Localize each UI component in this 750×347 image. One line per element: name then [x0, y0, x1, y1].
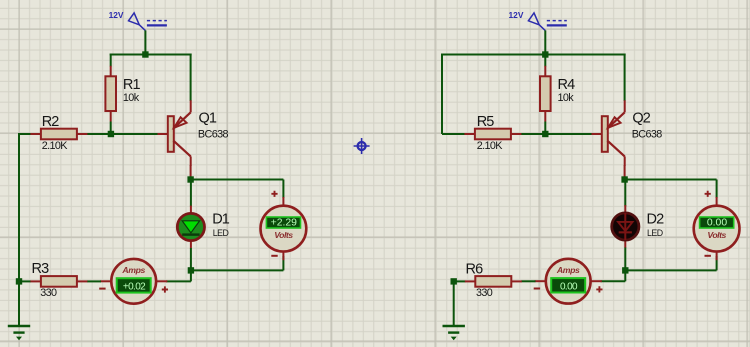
origin marker [354, 138, 370, 154]
wire node A to voltmeter top [191, 180, 284, 199]
svg-text:0.00: 0.00 [560, 282, 578, 293]
wire Q1 collector to node A [190, 165, 192, 180]
node: R4 / base rail junction (right) [542, 131, 548, 137]
resistor R4 10k [540, 66, 575, 122]
ground (left) [8, 326, 30, 340]
wire top rail (left circuit) [110, 54, 192, 56]
wire Q2 collector to node A [624, 165, 626, 180]
resistor R2 2.10K [30, 114, 87, 152]
svg-text:2.10K: 2.10K [477, 140, 504, 152]
wire rail down to R5 (left branch, right circuit) [441, 54, 443, 135]
transistor Q1 BC638 [158, 100, 229, 166]
wire rail down to Q1 emitter [190, 54, 192, 102]
svg-text:D2: D2 [647, 211, 665, 227]
ground (right) [443, 326, 465, 340]
resistor R5 2.10K [464, 114, 521, 152]
node: R3 / ground rail junction (left) [16, 278, 22, 284]
wire node B to voltmeter bottom (right) [625, 256, 716, 270]
wire node B to ammeter plus (right) [601, 270, 626, 281]
wire rail down to Q2 emitter [624, 54, 626, 102]
wire node A to voltmeter top (right) [625, 180, 717, 199]
wire top rail (right circuit) [442, 54, 626, 56]
node: R6 / ground junction (right) [451, 278, 457, 284]
wire node B to voltmeter bottom [191, 256, 284, 270]
svg-text:+2.29: +2.29 [271, 218, 298, 229]
wire left vertical (R2 to ground) [18, 133, 20, 326]
svg-text:Volts: Volts [707, 230, 726, 240]
wire 12V terminal to top rail (right) [544, 30, 546, 54]
svg-text:Amps: Amps [121, 265, 145, 275]
svg-text:10k: 10k [558, 92, 575, 104]
node: R1 / base rail junction [108, 131, 114, 137]
svg-text:LED: LED [647, 228, 663, 238]
power terminal 12V (right) [509, 10, 567, 31]
wire LED D2 to node B (right) [624, 248, 626, 271]
wire R6 node to ground (right) [453, 281, 455, 326]
svg-text:Amps: Amps [556, 265, 580, 275]
svg-text:12V: 12V [109, 10, 124, 20]
svg-text:2.10K: 2.10K [42, 140, 69, 152]
resistor R3 330 [30, 261, 87, 299]
wire 12V terminal to top rail [144, 30, 146, 54]
wire LED D1 to node B [190, 248, 192, 270]
svg-text:330: 330 [40, 287, 57, 299]
wire ground node to R6 [454, 280, 466, 282]
node B (left): LED / ammeter / voltmeter junction [188, 267, 194, 273]
svg-text:0.00: 0.00 [707, 218, 727, 229]
svg-text:R6: R6 [466, 262, 484, 278]
svg-text:BC638: BC638 [632, 128, 663, 140]
svg-text:R4: R4 [558, 77, 576, 93]
wire R6 to ammeter minus (right) [521, 280, 535, 282]
power terminal 12V (left) [109, 10, 167, 31]
svg-text:D1: D1 [212, 211, 230, 227]
wire base rail R5 to Q2 [442, 133, 592, 134]
svg-text:BC638: BC638 [198, 128, 229, 140]
wire node A down to LED D1 [190, 180, 192, 207]
wire ground rail to R3 [19, 280, 31, 282]
wire rail to R1 top [110, 54, 112, 67]
svg-text:Q2: Q2 [632, 111, 650, 127]
wire rail to R4 top [544, 55, 546, 67]
wire R4 bottom to base rail (right) [544, 122, 546, 135]
resistor R1 10k [105, 66, 140, 122]
svg-text:R2: R2 [42, 114, 60, 130]
svg-text:R5: R5 [477, 114, 495, 130]
wire R3 to ammeter minus [87, 280, 101, 282]
svg-text:Volts: Volts [274, 230, 293, 240]
node A (right): collector / LED / voltmeter junction [621, 176, 627, 182]
LED D2 (off) [612, 205, 664, 248]
svg-text:10k: 10k [123, 92, 140, 104]
node: 12V rail junction (left) [142, 51, 148, 57]
wire node A down to LED D2 [624, 180, 626, 207]
ammeter +0.02 Amps (left) [99, 259, 168, 304]
voltmeter 0.00 Volts (right) [694, 191, 740, 261]
wire node B to ammeter plus [166, 270, 191, 281]
svg-text:Q1: Q1 [199, 111, 217, 127]
voltmeter +2.29 Volts (left) [261, 191, 307, 261]
node A (left): collector / LED / voltmeter junction [187, 176, 193, 182]
svg-text:R3: R3 [32, 261, 50, 277]
node B (right): LED / ammeter / voltmeter junction [622, 267, 628, 273]
resistor R6 330 [465, 262, 522, 299]
ammeter 0.00 Amps (right) [534, 259, 603, 304]
svg-text:R1: R1 [123, 77, 141, 93]
svg-text:LED: LED [213, 228, 229, 238]
wire R1 bottom to base rail [110, 122, 112, 135]
LED D1 (lit) [177, 206, 229, 249]
wire base rail R2 to Q1 [19, 133, 158, 135]
svg-text:330: 330 [476, 287, 493, 299]
svg-text:+0.02: +0.02 [123, 282, 146, 293]
svg-text:12V: 12V [509, 10, 524, 20]
transistor Q2 BC638 [592, 100, 663, 166]
node: 12V / R4 / rail junction (right) [542, 51, 548, 57]
